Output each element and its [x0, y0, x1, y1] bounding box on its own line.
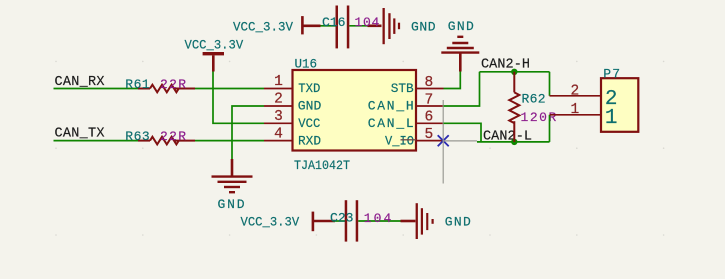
- wire CAN2-L to P7 pin1: [549, 115, 551, 142]
- svg-text:8: 8: [425, 75, 434, 91]
- dangling gray wire: [443, 100, 477, 184]
- svg-text:104: 104: [355, 15, 380, 30]
- wire CAN2-H: [480, 71, 550, 73]
- wire R63 to pin4 RXD: [195, 140, 264, 142]
- svg-text:GND: GND: [298, 99, 322, 114]
- no-connect X on pin 5: [438, 135, 449, 146]
- svg-text:R62: R62: [522, 91, 546, 106]
- svg-text:120R: 120R: [521, 110, 557, 125]
- svg-text:CAN2-H: CAN2-H: [481, 58, 530, 73]
- svg-text:2: 2: [274, 92, 283, 108]
- wire pin2 GND down: [232, 106, 264, 159]
- svg-text:R63: R63: [125, 129, 149, 144]
- inverted ground symbol above STB: [441, 19, 479, 72]
- svg-text:VCC_3.3V: VCC_3.3V: [233, 20, 293, 35]
- svg-text:3: 3: [274, 109, 283, 125]
- svg-text:U16: U16: [295, 57, 318, 72]
- P7 pin 1: [550, 102, 618, 130]
- svg-text:22R: 22R: [160, 77, 186, 92]
- svg-text:1: 1: [274, 74, 283, 90]
- pin 1 TXD: [264, 74, 320, 96]
- ground symbol right of C23: [416, 203, 471, 239]
- pin 2 GND: [264, 92, 321, 114]
- wire pin8 STB to ground: [444, 71, 461, 89]
- wire CAN2-L: [477, 141, 550, 143]
- svg-text:CAN_H: CAN_H: [368, 99, 414, 114]
- op-amp-style IC U16 TJA1042T: [293, 57, 417, 174]
- svg-text:CAN_TX: CAN_TX: [55, 126, 105, 141]
- svg-text:TJA1042T: TJA1042T: [294, 158, 350, 173]
- svg-text:STB: STB: [391, 81, 414, 96]
- svg-text:1: 1: [605, 107, 618, 130]
- power symbol VCC_3.3V bottom: [241, 212, 336, 232]
- svg-text:CAN_L: CAN_L: [368, 116, 414, 131]
- svg-text:VCC: VCC: [298, 116, 320, 131]
- wire VCC to C16: [321, 25, 336, 27]
- ground symbol right of C16: [383, 8, 436, 44]
- P7 pin 2: [550, 84, 618, 111]
- connector P7: [601, 67, 638, 132]
- svg-text:TXD: TXD: [298, 81, 320, 96]
- wire CAN2-H to P7 pin2: [549, 72, 551, 96]
- svg-text:GND: GND: [448, 19, 474, 34]
- svg-text:6: 6: [425, 110, 434, 126]
- svg-text:C23: C23: [330, 211, 354, 226]
- wire VCC to pin3 VCC: [213, 72, 264, 124]
- pin 7 CAN_H: [368, 92, 444, 113]
- wire pin6 CAN_L down to CAN2-L: [444, 123, 482, 142]
- pin 3 VCC: [264, 109, 320, 131]
- svg-text:VCC_3.3V: VCC_3.3V: [241, 214, 300, 229]
- resistor R62 120R: [509, 72, 556, 142]
- pin 4 RXD: [264, 126, 321, 148]
- svg-text:GND: GND: [411, 20, 436, 35]
- svg-text:VCC_3.3V: VCC_3.3V: [185, 37, 244, 52]
- wire R61 to pin1 TXD: [195, 88, 264, 90]
- svg-text:GND: GND: [445, 214, 471, 229]
- svg-text:GND: GND: [218, 197, 245, 212]
- svg-text:R61: R61: [125, 77, 150, 92]
- svg-text:RXD: RXD: [298, 133, 321, 148]
- svg-text:22R: 22R: [160, 129, 186, 144]
- power symbol VCC_3.3V left: [185, 37, 244, 71]
- ground symbol below U16: [212, 159, 253, 212]
- pin 6 CAN_L: [368, 110, 444, 131]
- svg-text:2: 2: [570, 84, 579, 100]
- power symbol VCC_3.3V top: [233, 16, 321, 34]
- junction CAN2-L: [511, 139, 517, 145]
- wire CAN_RX to R61: [54, 88, 140, 90]
- junction CAN2-H: [511, 69, 517, 75]
- svg-text:P7: P7: [603, 67, 620, 82]
- wire VCC to C23: [333, 220, 345, 222]
- resistor R63 22R: [125, 129, 195, 145]
- svg-text:1: 1: [570, 102, 579, 118]
- pin 5 V_IO: [385, 127, 444, 148]
- svg-text:5: 5: [425, 127, 434, 143]
- wire pin7 CAN_H up to CAN2-H: [444, 72, 480, 106]
- svg-text:4: 4: [274, 126, 283, 142]
- svg-text:104: 104: [364, 211, 392, 226]
- svg-text:7: 7: [425, 92, 434, 108]
- resistor R61 22R: [125, 77, 195, 92]
- svg-text:V_IO: V_IO: [385, 133, 414, 148]
- pin 8 STB: [391, 75, 444, 96]
- capacitor C23 104: [330, 200, 415, 241]
- svg-text:C16: C16: [322, 15, 346, 30]
- grid dots: [55, 61, 664, 236]
- wire CAN_TX to R63: [54, 140, 140, 142]
- capacitor C16 104: [322, 6, 382, 49]
